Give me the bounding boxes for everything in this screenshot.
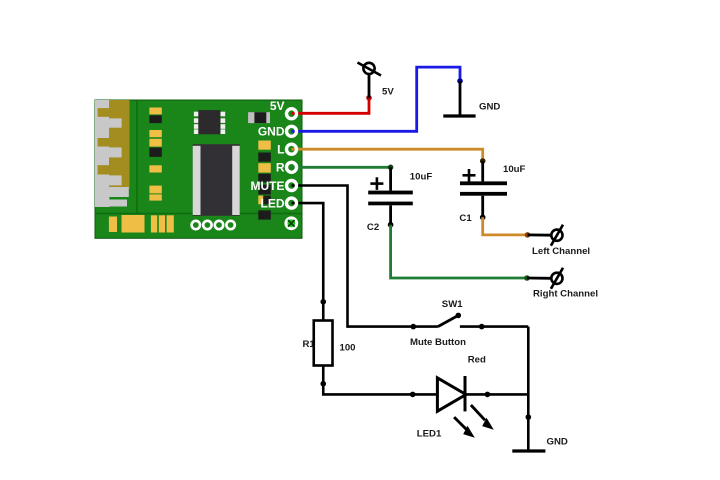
svg-text:C1: C1 [459, 213, 472, 224]
capacitor C1 [460, 161, 507, 220]
wire LED pin to R1 [292, 203, 327, 320]
svg-text:Right Channel: Right Channel [533, 288, 598, 299]
svg-text:LED: LED [261, 196, 285, 210]
pin GND [287, 126, 297, 136]
svg-text:MUTE: MUTE [251, 179, 285, 193]
pin label R [276, 161, 285, 175]
pin label GND [258, 125, 285, 139]
label Red [468, 355, 486, 366]
svg-text:L: L [277, 143, 284, 157]
wire C2 to Right Channel green [391, 225, 530, 281]
pad column right [258, 141, 271, 220]
wire R1 to LED1 [320, 366, 437, 398]
wire C1 to Left Channel orange [483, 217, 531, 237]
Bluetooth audio module board [95, 100, 302, 238]
svg-text:C2: C2 [367, 222, 379, 233]
wire R green [292, 165, 394, 171]
SMD resistor [248, 112, 270, 123]
label GND bottom [547, 436, 568, 447]
label 5V [382, 87, 394, 98]
pin 5V [287, 109, 297, 119]
svg-text:R1: R1 [303, 339, 316, 350]
label R1 [303, 339, 316, 350]
label Mute Button [410, 337, 466, 348]
pin LED [287, 198, 297, 208]
capacitor C2 [368, 167, 413, 227]
label C1 [459, 213, 472, 224]
svg-text:GND: GND [479, 101, 500, 112]
label GND top [479, 101, 500, 112]
svg-text:Mute Button: Mute Button [410, 337, 466, 348]
bottom pads [109, 215, 174, 233]
terminal Right Channel [527, 268, 563, 289]
LED light arrows [454, 405, 494, 438]
svg-text:Left Channel: Left Channel [532, 246, 590, 257]
label SW1 [442, 299, 463, 310]
svg-text:5V: 5V [270, 99, 285, 113]
wire 5V red [292, 95, 372, 113]
label LED1 [417, 428, 442, 439]
ground GND (bottom) [512, 449, 545, 452]
IC U2 (top, 8-pin) [194, 110, 225, 134]
antenna [95, 100, 130, 207]
pin MUTE [287, 181, 297, 191]
svg-text:10uF: 10uF [503, 164, 526, 175]
wire MUTE black [292, 186, 417, 330]
LED LED1 [437, 376, 528, 411]
terminal Left Channel [528, 225, 564, 246]
svg-text:LED1: LED1 [417, 428, 442, 439]
pin R [287, 162, 297, 172]
svg-text:R: R [276, 161, 285, 175]
test point marker [286, 218, 297, 229]
wire L orange [292, 149, 486, 164]
terminal 5V [358, 63, 382, 98]
label 10uF C1 [503, 164, 526, 175]
ground GND (top) [443, 81, 475, 116]
svg-text:GND: GND [547, 436, 568, 447]
pin label LED [261, 196, 285, 210]
label 10uF C2 [410, 171, 433, 182]
resistor R1 [314, 321, 333, 366]
pin label L [277, 143, 284, 157]
svg-text:100: 100 [340, 343, 356, 354]
svg-text:GND: GND [258, 125, 285, 139]
main chip [193, 144, 240, 216]
svg-text:Red: Red [468, 355, 486, 366]
pad column left [149, 108, 161, 201]
svg-text:SW1: SW1 [442, 299, 463, 310]
switch SW1 [413, 313, 528, 330]
svg-text:10uF: 10uF [410, 171, 433, 182]
mounting holes [192, 221, 235, 229]
svg-text:5V: 5V [382, 87, 394, 98]
wire GND blue [292, 67, 463, 131]
label C2 [367, 222, 379, 233]
pin L [287, 144, 297, 154]
label 100 [340, 343, 356, 354]
wire switch to GND vertical [526, 327, 532, 450]
label Right Channel [533, 288, 598, 299]
pin label 5V [270, 99, 285, 113]
label Left Channel [532, 246, 590, 257]
pin label MUTE [251, 179, 285, 193]
